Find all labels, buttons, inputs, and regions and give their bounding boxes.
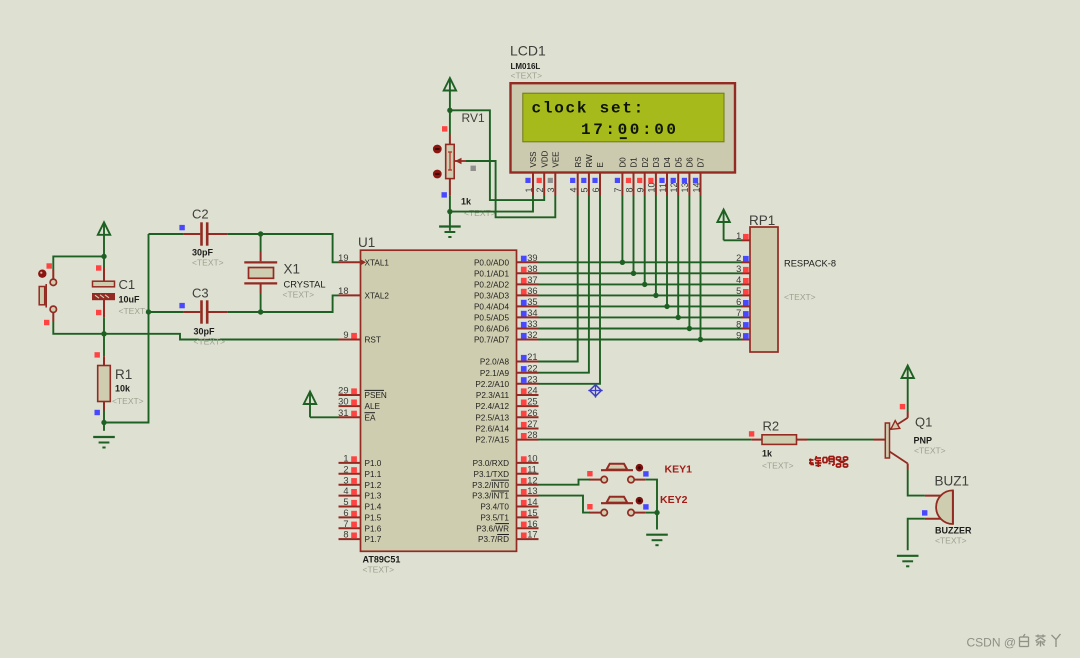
svg-text:<TEXT>: <TEXT> [192, 258, 224, 268]
svg-text:4: 4 [343, 486, 348, 496]
wire LCD D4 to P0.4 bus [666, 196, 668, 307]
svg-text:XTAL1: XTAL1 [365, 258, 390, 267]
svg-text:4: 4 [736, 275, 741, 285]
wire LCD D0 to P0.0 bus [621, 196, 623, 263]
wire LCD D3 to P0.3 bus [655, 196, 657, 296]
U1 pin 10 (P3.0/RXD) [473, 454, 539, 469]
U1 pin 18 (XTAL2) [338, 286, 389, 301]
svg-text:<TEXT>: <TEXT> [784, 292, 816, 302]
LCD pin 5 (RW) [580, 154, 594, 196]
svg-text:PSEN: PSEN [365, 391, 387, 400]
U1 pin 34 (P0.5) [474, 308, 539, 323]
wire LCD RW to U1 P2.1 [539, 196, 589, 373]
junction node X1-top [258, 231, 263, 236]
KEY2 actuator red dot [636, 497, 644, 505]
op: microcontroller U1 AT89C51 body [361, 250, 517, 551]
svg-text:10: 10 [647, 182, 657, 192]
wire LCD D2 to P0.2 bus [644, 196, 646, 285]
svg-text:6: 6 [591, 187, 601, 192]
svg-text:RW: RW [585, 154, 594, 168]
U1 pin 29 (PSEN) [338, 386, 387, 401]
svg-text:XTAL2: XTAL2 [365, 292, 390, 301]
U1 pin 32 (P0.7) [474, 330, 539, 345]
svg-text:KEY1: KEY1 [665, 464, 693, 476]
svg-text:2: 2 [535, 187, 545, 192]
svg-text:<TEXT>: <TEXT> [283, 290, 315, 300]
junction D2 [642, 282, 647, 287]
wire P0.7 to RP1 pin 9 [539, 339, 742, 341]
resistor pack RP1 RESPACK-8 body [750, 227, 778, 352]
wire VCC to C1 [103, 256, 105, 267]
ground (keys) [646, 535, 668, 546]
LCD pin 1 (VSS) [524, 151, 538, 195]
svg-text:7: 7 [613, 187, 623, 192]
svg-text:7: 7 [736, 308, 741, 318]
svg-text:<TEXT>: <TEXT> [762, 461, 794, 471]
power terminal at Q1 [902, 366, 914, 412]
U1 pin 24 (P2.3) [476, 386, 539, 401]
junction KEY2-ground rail [654, 510, 659, 515]
svg-text:P3.7/RD: P3.7/RD [478, 535, 509, 544]
svg-text:<TEXT>: <TEXT> [935, 536, 967, 546]
wire button to VCC node [53, 256, 104, 269]
svg-text:7: 7 [343, 519, 348, 529]
svg-text:25: 25 [527, 397, 537, 407]
wire U1 P3.2 to KEY1 [539, 480, 591, 485]
KEY1 pin state squares [587, 471, 592, 476]
LCD pin 7 (D0) [613, 157, 627, 196]
KEY1 actuator red dot [636, 464, 644, 472]
wire U1 P3.3 to KEY2 [539, 496, 591, 513]
LCD cursor underline [620, 137, 627, 139]
push button KEY1 [589, 464, 645, 483]
buzzer BUZ1 [925, 490, 953, 524]
wire VCC to RV1 [449, 110, 451, 134]
U1 pin 30 (ALE) [338, 397, 380, 412]
svg-text:P0.5/AD5: P0.5/AD5 [474, 314, 509, 323]
push button KEY2 [589, 497, 645, 516]
U1 pin 19 (XTAL1) [338, 253, 389, 268]
svg-text:E: E [596, 162, 605, 167]
svg-text:D4: D4 [663, 157, 672, 168]
wire P0.4 to RP1 pin 6 [539, 305, 742, 307]
wire C2 to U1 XTAL1 [227, 234, 338, 262]
U1 pin 39 (P0.0) [474, 253, 539, 268]
svg-text:D7: D7 [697, 157, 706, 168]
svg-text:35: 35 [527, 297, 537, 307]
ground (RV1) [439, 227, 461, 238]
svg-text:PNP: PNP [914, 436, 933, 446]
svg-text:P1.1: P1.1 [365, 470, 382, 479]
svg-text:15: 15 [527, 508, 537, 518]
U1 pin 9 (RST) [339, 330, 381, 345]
LCD pin 12 (D5) [669, 157, 683, 196]
svg-text:D6: D6 [686, 157, 695, 168]
svg-text:24: 24 [527, 386, 537, 396]
svg-text:22: 22 [527, 363, 537, 373]
junction node RSTNET [101, 331, 106, 336]
capacitor C2 [149, 233, 184, 235]
svg-text:37: 37 [527, 275, 537, 285]
junction D0 [620, 260, 625, 265]
svg-text:13: 13 [680, 182, 690, 192]
svg-text:P3.5/T1: P3.5/T1 [480, 514, 509, 523]
svg-text:P3.4/T0: P3.4/T0 [480, 503, 509, 512]
svg-text:6: 6 [343, 508, 348, 518]
U1 pin 5 (P1.4) [339, 497, 382, 512]
svg-text:VDD: VDD [540, 150, 549, 167]
svg-text:5: 5 [580, 187, 590, 192]
svg-text:<TEXT>: <TEXT> [119, 306, 151, 316]
svg-text:12: 12 [527, 475, 537, 485]
wire power to U1 EA pin 31 [310, 416, 339, 418]
RP1 pin 1 [736, 231, 750, 241]
svg-text:11: 11 [658, 183, 668, 192]
svg-text:P3.0/RXD: P3.0/RXD [473, 459, 509, 468]
U1 pin 2 (P1.1) [339, 464, 382, 479]
svg-text:13: 13 [527, 486, 537, 496]
junction node X1-bottom [258, 309, 263, 314]
RP1 pin 2 [736, 253, 750, 263]
svg-text:AT89C51: AT89C51 [363, 555, 401, 565]
svg-text:<TEXT>: <TEXT> [363, 565, 395, 575]
svg-text:P0.4/AD4: P0.4/AD4 [474, 303, 509, 312]
U1 pin 1 (P1.0) [339, 454, 382, 469]
svg-text:30: 30 [338, 397, 348, 407]
junction node VSS [447, 209, 452, 214]
junction D4 [664, 304, 669, 309]
svg-text:11: 11 [527, 464, 537, 474]
wire LCD D6 to P0.6 bus [688, 196, 690, 329]
wire KEY1 to ground rail [645, 480, 657, 530]
svg-text:19: 19 [338, 253, 348, 263]
LCD screen [523, 93, 724, 142]
button pin state squares [47, 263, 52, 268]
wire C3 to U1 XTAL2 [227, 295, 338, 312]
wire P0.1 to RP1 pin 3 [539, 272, 742, 274]
svg-text:32: 32 [527, 330, 537, 340]
svg-text:ALE: ALE [365, 402, 381, 411]
svg-text:31: 31 [338, 408, 348, 418]
svg-text:P0.0/AD0: P0.0/AD0 [474, 258, 509, 267]
U1 pin 38 (P0.1) [474, 264, 539, 279]
U1 pin 3 (P1.2) [339, 475, 382, 490]
RV1 adjust buttons [433, 145, 442, 154]
crystal X1 [260, 234, 262, 252]
svg-text:Q1: Q1 [915, 415, 932, 430]
RP1 pin 8 [736, 319, 750, 329]
wire KEY2 to ground rail [645, 512, 657, 514]
ground (left) [93, 437, 115, 448]
U1 XTAL1 clock arrow [361, 259, 367, 265]
svg-text:34: 34 [527, 308, 537, 318]
junction D3 [653, 293, 658, 298]
svg-text:29: 29 [338, 386, 348, 396]
svg-text:clock set:: clock set: [532, 99, 646, 117]
resistor R2 [752, 435, 807, 445]
svg-text:<TEXT>: <TEXT> [194, 337, 226, 347]
wire power to RP1 pin 1 [724, 239, 741, 241]
U1 pin 25 (P2.4) [475, 397, 538, 412]
svg-text:P2.1/A9: P2.1/A9 [480, 369, 510, 378]
svg-text:8: 8 [343, 530, 348, 540]
svg-text:1k: 1k [461, 197, 472, 207]
svg-text:EA: EA [365, 413, 376, 422]
U1 pin 4 (P1.3) [339, 486, 382, 501]
wire net RST to U1 pin 9 [104, 334, 339, 340]
svg-text:RS: RS [574, 156, 583, 167]
svg-text:9: 9 [736, 330, 741, 340]
junction D6 [687, 326, 692, 331]
LCD LM016L body [511, 83, 736, 172]
svg-text:U1: U1 [358, 235, 375, 250]
U1 pin 27 (P2.6) [475, 419, 538, 434]
svg-text:P1.7: P1.7 [365, 535, 382, 544]
junction node R1-bottom [101, 420, 106, 425]
U1 pin 11 (P3.1/TXD) [474, 464, 539, 479]
junction node VCC/button [101, 254, 106, 259]
push button SW (left) [39, 279, 56, 312]
U1 pin 36 (P0.3) [474, 286, 539, 301]
svg-text:P0.1/AD1: P0.1/AD1 [474, 269, 509, 278]
svg-text:1: 1 [524, 187, 534, 192]
origin marker [588, 383, 602, 397]
capacitor C1 [93, 268, 115, 318]
svg-text:26: 26 [527, 408, 537, 418]
power terminal VCC (left) [98, 222, 110, 256]
red text 蜂鸣器 (buzzer) drawn strokes [809, 456, 848, 467]
power terminal at RP1 [717, 210, 729, 241]
svg-text:17:00:00: 17:00:00 [581, 121, 679, 139]
svg-text:P0.6/AD6: P0.6/AD6 [474, 325, 509, 334]
U1 pin 31 (EA) [338, 408, 376, 423]
svg-text:VEE: VEE [551, 151, 560, 167]
wire R1-bottom to C2/C3 column [104, 234, 149, 423]
RP1 pin 6 [736, 297, 750, 307]
svg-text:RESPACK-8: RESPACK-8 [784, 259, 836, 269]
wire BUZ1 to ground [908, 519, 925, 551]
resistor R1 [103, 334, 105, 356]
svg-text:28: 28 [527, 430, 537, 440]
svg-text:2: 2 [343, 464, 348, 474]
svg-text:D0: D0 [619, 157, 628, 168]
LCD pin 8 (D1) [624, 157, 638, 196]
svg-text:<TEXT>: <TEXT> [464, 208, 496, 218]
LCD pin 3 (VEE) [546, 151, 560, 195]
svg-text:RV1: RV1 [462, 111, 485, 125]
svg-text:9: 9 [636, 187, 646, 192]
svg-text:C2: C2 [192, 207, 209, 222]
U1 pin 26 (P2.5) [475, 408, 538, 423]
svg-text:1k: 1k [762, 449, 773, 459]
svg-text:C3: C3 [192, 286, 209, 301]
RP1 pin 7 [736, 308, 750, 318]
transistor Q1 (PNP) [874, 411, 908, 469]
svg-text:P1.6: P1.6 [365, 524, 382, 533]
wire P0.3 to RP1 pin 5 [539, 294, 742, 296]
svg-text:5: 5 [343, 497, 348, 507]
LCD pin 14 (D7) [691, 157, 705, 196]
wire LCD D7 to P0.7 bus [700, 196, 702, 340]
button actuator red dot [38, 270, 46, 278]
svg-text:C1: C1 [119, 277, 136, 292]
svg-text:P2.3/A11: P2.3/A11 [476, 391, 510, 400]
svg-text:17: 17 [527, 530, 537, 540]
svg-text:X1: X1 [284, 262, 301, 277]
svg-text:8: 8 [624, 187, 634, 192]
svg-text:P1.2: P1.2 [365, 481, 382, 490]
junction D7 [698, 337, 703, 342]
svg-text:23: 23 [527, 374, 537, 384]
svg-text:CSDN @: CSDN @ [967, 636, 1017, 650]
wire button to RSTNET [53, 322, 104, 334]
U1 pin 35 (P0.4) [474, 297, 539, 312]
wire LCD D1 to P0.1 bus [633, 196, 635, 274]
wire C1 to node RSTNET [103, 318, 105, 334]
svg-text:18: 18 [338, 286, 348, 296]
wire Q1 collector to BUZ1 [908, 469, 925, 496]
U1 pin 15 (P3.5/T1) [480, 508, 538, 523]
svg-text:P2.7/A15: P2.7/A15 [475, 436, 509, 445]
U1 pin 12 (P3.2/INT0) [472, 475, 538, 490]
wire R2 to Q1 base [807, 439, 874, 441]
ground (buzzer) [897, 556, 919, 567]
svg-text:1: 1 [343, 454, 348, 464]
svg-text:<TEXT>: <TEXT> [511, 71, 543, 81]
wire RV1 wiper to LCD VEE [466, 161, 555, 217]
R1 pin state squares [95, 352, 100, 357]
button bottom pin [52, 312, 54, 322]
svg-text:P3.6/WR: P3.6/WR [476, 524, 509, 533]
svg-text:D1: D1 [630, 157, 639, 168]
wire P0.0 to RP1 pin 2 [539, 261, 742, 263]
svg-text:33: 33 [527, 319, 537, 329]
U1 pin 6 (P1.5) [339, 508, 382, 523]
svg-text:P2.0/A8: P2.0/A8 [480, 358, 510, 367]
LCD pin 6 (E) [591, 162, 605, 195]
svg-text:BUZZER: BUZZER [935, 526, 972, 536]
svg-text:RST: RST [365, 336, 381, 345]
LCD pin 2 (VDD) [535, 150, 549, 195]
svg-text:39: 39 [527, 253, 537, 263]
RP1 pin 5 [736, 286, 750, 296]
U1 pin 7 (P1.6) [339, 519, 382, 534]
wire LCD D5 to P0.5 bus [677, 196, 679, 318]
svg-text:5: 5 [736, 286, 741, 296]
svg-text:2: 2 [736, 253, 741, 263]
junction node C3-left [146, 309, 151, 314]
svg-text:14: 14 [527, 497, 537, 507]
wire P0.6 to RP1 pin 8 [539, 328, 742, 330]
RP1 pin 9 [736, 330, 750, 340]
wire LCD E to U1 P2.2 [539, 196, 601, 384]
capacitor C3 [149, 311, 184, 313]
U1 pin 21 (P2.0) [480, 352, 539, 367]
svg-text:P3.1/TXD: P3.1/TXD [474, 470, 510, 479]
U1 pin 23 (P2.2) [475, 374, 538, 389]
junction node VCC-RV1 [447, 108, 452, 113]
wire RV1 to ground [449, 196, 451, 231]
svg-text:12: 12 [669, 182, 679, 192]
svg-text:KEY2: KEY2 [660, 494, 688, 506]
svg-text:P1.3: P1.3 [365, 492, 382, 501]
svg-text:10k: 10k [115, 384, 131, 394]
svg-text:VSS: VSS [529, 151, 538, 167]
RP1 pin 3 [736, 264, 750, 274]
svg-text:LCD1: LCD1 [510, 43, 546, 59]
U1 pin 14 (P3.4/T0) [480, 497, 538, 512]
LCD pin 10 (D3) [647, 157, 661, 196]
svg-text:10: 10 [527, 454, 537, 464]
svg-text:10uF: 10uF [119, 295, 141, 305]
svg-text:P1.0: P1.0 [365, 459, 382, 468]
button top pin [52, 270, 54, 280]
svg-text:P1.4: P1.4 [365, 503, 382, 512]
svg-text:D5: D5 [674, 157, 683, 168]
svg-text:4: 4 [569, 187, 579, 192]
U1 pin 22 (P2.1) [480, 363, 539, 378]
power terminal at EA [304, 392, 316, 418]
svg-text:R1: R1 [115, 367, 132, 382]
svg-text:CRYSTAL: CRYSTAL [284, 280, 326, 290]
LCD pin 9 (D2) [636, 157, 650, 196]
svg-text:BUZ1: BUZ1 [935, 474, 970, 489]
svg-text:P3.3/INT1: P3.3/INT1 [472, 492, 509, 501]
svg-text:P0.2/AD2: P0.2/AD2 [474, 281, 509, 290]
svg-text:38: 38 [527, 264, 537, 274]
svg-text:RP1: RP1 [749, 213, 775, 228]
LCD pin 4 (RS) [569, 156, 583, 195]
svg-text:6: 6 [736, 297, 741, 307]
U1 pin 17 (P3.7/RD) [478, 530, 538, 545]
svg-text:P0.7/AD7: P0.7/AD7 [474, 336, 509, 345]
svg-text:3: 3 [343, 475, 348, 485]
svg-text:P2.4/A12: P2.4/A12 [475, 402, 509, 411]
svg-text:21: 21 [527, 352, 537, 362]
svg-text:P2.2/A10: P2.2/A10 [475, 380, 509, 389]
LCD pin 11 (D4) [658, 157, 672, 196]
potentiometer RV1 [446, 135, 466, 196]
C1 pin state squares [96, 265, 101, 270]
junction D1 [631, 271, 636, 276]
LCD pin 13 (D6) [680, 157, 694, 196]
svg-text:8: 8 [736, 319, 741, 329]
svg-text:P2.6/A14: P2.6/A14 [475, 425, 509, 434]
svg-text:36: 36 [527, 286, 537, 296]
wire LCD RS to U1 P2.0 [539, 196, 578, 362]
svg-text:D3: D3 [652, 157, 661, 168]
svg-text:9: 9 [343, 330, 348, 340]
U1 pin 28 (P2.7) [475, 430, 538, 445]
svg-text:16: 16 [527, 519, 537, 529]
wire U1 P2.7 to R2 [539, 439, 752, 441]
U1 pin 37 (P0.2) [474, 275, 539, 290]
svg-text:P1.5: P1.5 [365, 514, 382, 523]
wire VCC to LCD VDD [450, 110, 544, 200]
svg-text:P0.3/AD3: P0.3/AD3 [474, 292, 509, 301]
svg-text:30pF: 30pF [194, 327, 216, 337]
svg-text:<TEXT>: <TEXT> [914, 446, 946, 456]
U1 pin 13 (P3.3/INT1) [472, 486, 538, 501]
svg-text:P2.5/A13: P2.5/A13 [475, 413, 509, 422]
U1 pin 8 (P1.7) [339, 530, 382, 545]
wire R1 to ground [103, 411, 105, 431]
KEY2 pin state squares [587, 504, 592, 509]
wire P0.2 to RP1 pin 4 [539, 283, 742, 285]
RV1 pin state squares [442, 126, 447, 131]
wire LCD VSS to ground node [450, 196, 533, 212]
svg-text:1: 1 [736, 231, 741, 241]
